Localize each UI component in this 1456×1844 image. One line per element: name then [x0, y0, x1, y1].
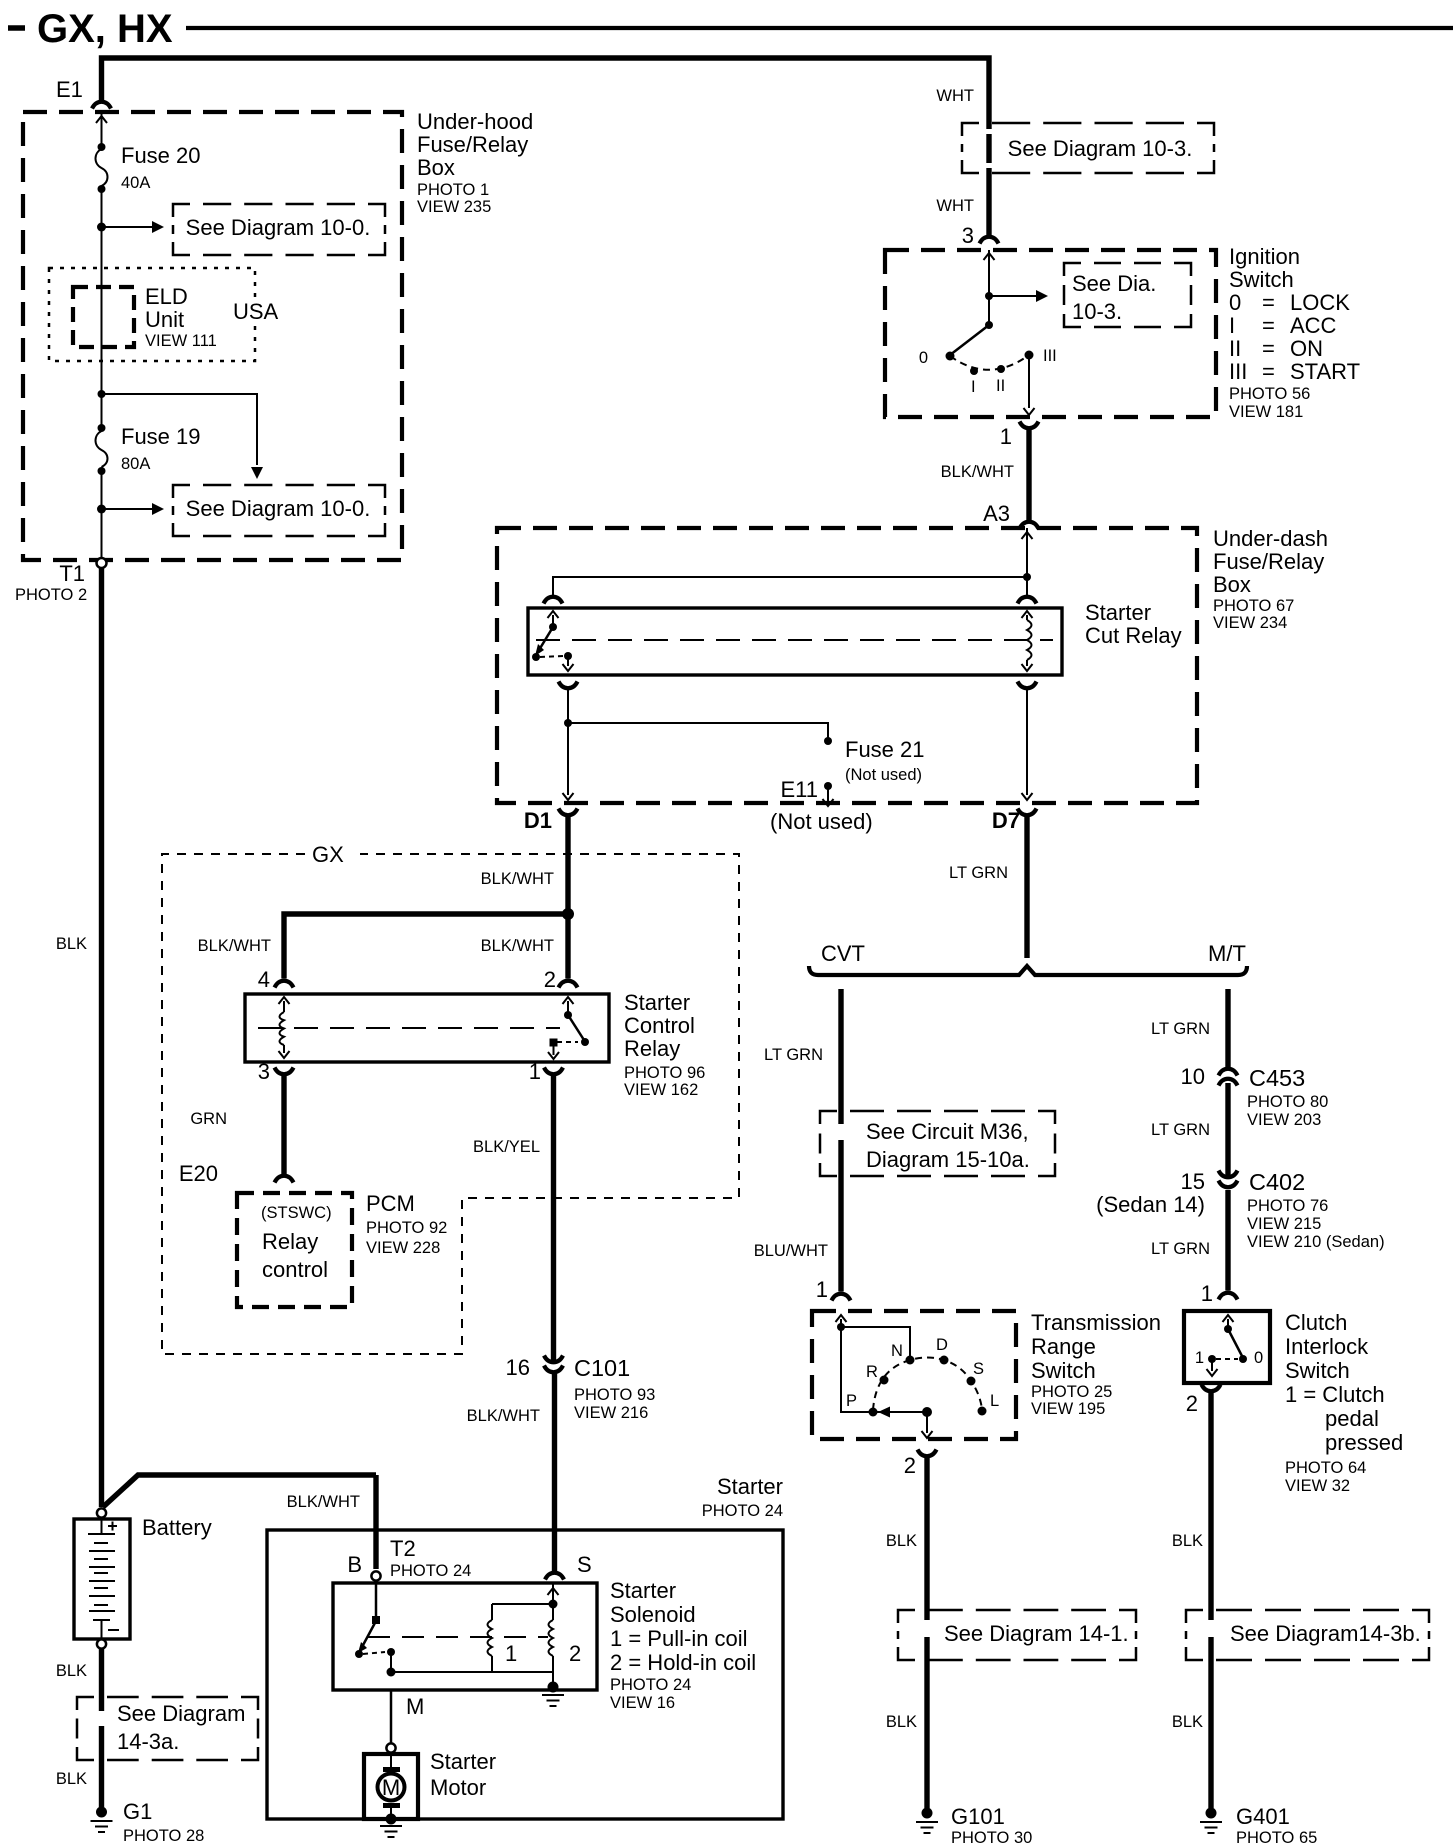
solenoid hold-in coil 2: [548, 1583, 582, 1687]
ignition positions arc 0-I-II-III: [919, 347, 1057, 396]
svg-text:See Diagram: See Diagram: [117, 1701, 245, 1726]
node M terminal: [386, 1743, 395, 1752]
svg-text:Cut Relay: Cut Relay: [1085, 623, 1182, 648]
svg-text:Fuse/Relay: Fuse/Relay: [1213, 549, 1324, 574]
node: battery positive terminal: [97, 1508, 106, 1517]
svg-text:USA: USA: [233, 299, 279, 324]
svg-text:PHOTO 1: PHOTO 1: [417, 181, 489, 199]
node S terminal: [545, 1552, 592, 1580]
svg-text:1: 1: [1000, 424, 1012, 449]
svg-text:Switch: Switch: [1031, 1358, 1096, 1383]
svg-text:Transmission: Transmission: [1031, 1310, 1161, 1335]
svg-text:Switch: Switch: [1285, 1358, 1350, 1383]
svg-text:1: 1: [529, 1059, 541, 1084]
svg-text:Fuse/Relay: Fuse/Relay: [417, 132, 528, 157]
svg-text:D7: D7: [992, 808, 1020, 833]
svg-text:1 = Pull-in coil: 1 = Pull-in coil: [610, 1626, 748, 1651]
node: branch to See Diagram 10-0 (lower) arrow: [97, 503, 164, 515]
svg-text:VIEW 215: VIEW 215: [1247, 1215, 1321, 1233]
svg-text:2: 2: [904, 1453, 916, 1478]
svg-text:4: 4: [258, 967, 270, 992]
svg-text:Fuse 20: Fuse 20: [121, 143, 201, 168]
svg-text:PHOTO 80: PHOTO 80: [1247, 1093, 1328, 1111]
wire: BLK/WHT ignition to A3: [941, 430, 1029, 520]
svg-text:PHOTO 25: PHOTO 25: [1031, 1383, 1112, 1401]
svg-text:M: M: [382, 1775, 400, 1800]
CVT / M/T split brace: [809, 941, 1247, 975]
svg-text:PHOTO 24: PHOTO 24: [610, 1676, 691, 1694]
svg-text:PHOTO 30: PHOTO 30: [951, 1829, 1032, 1844]
node D7: [992, 808, 1037, 833]
svg-text:2: 2: [569, 1641, 581, 1666]
svg-text:See Diagram 14-1.: See Diagram 14-1.: [944, 1621, 1129, 1646]
battery: [74, 1515, 212, 1639]
wire: C453 to C402 (LT GRN): [1151, 1083, 1228, 1177]
svg-text:Motor: Motor: [430, 1775, 486, 1800]
node A3: [983, 501, 1038, 529]
svg-text:E1: E1: [56, 77, 83, 102]
solenoid contact switch: [355, 1580, 395, 1672]
wire: clutch switch pin 2 to G401 (BLK): [1172, 1392, 1211, 1808]
svg-text:BLK/WHT: BLK/WHT: [481, 870, 554, 888]
node: relay contact pin (top left): [544, 597, 563, 604]
svg-text:LT GRN: LT GRN: [1151, 1121, 1210, 1139]
svg-text:3: 3: [962, 223, 974, 248]
svg-text:VIEW 203: VIEW 203: [1247, 1111, 1321, 1129]
svg-text:D: D: [936, 1336, 948, 1354]
wire: fuse 20 to T1 vertical: [101, 189, 103, 428]
node: branch to arrow into See Diagram 10-0 (lower): [98, 390, 264, 479]
wire: junction to pin 4 (BLK/WHT): [198, 914, 568, 979]
node E20: [179, 1161, 294, 1186]
svg-text:III: III: [1229, 359, 1247, 384]
wire: stub to relay coil: [1026, 577, 1028, 595]
ground: starter motor ground: [380, 1814, 402, 1838]
svg-text:GX, HX: GX, HX: [37, 7, 173, 51]
See Circuit M36 box: [820, 1111, 1055, 1176]
starter motor: [364, 1749, 496, 1819]
svg-text:BLK: BLK: [1172, 1532, 1203, 1550]
ignition rotary switch wiper: [946, 321, 994, 361]
svg-text:VIEW 16: VIEW 16: [610, 1694, 675, 1712]
svg-text:Box: Box: [417, 155, 455, 180]
node: relay pin 2: [544, 967, 578, 992]
node: ignition pin 1: [1000, 422, 1039, 450]
svg-text:BLK: BLK: [886, 1532, 917, 1550]
svg-text:Starter: Starter: [624, 990, 690, 1015]
svg-text:CVT: CVT: [821, 941, 865, 966]
ignition switch box: [885, 244, 1360, 421]
svg-text:LT GRN: LT GRN: [949, 864, 1008, 882]
svg-text:pedal: pedal: [1325, 1406, 1379, 1431]
svg-text:START: START: [1290, 359, 1360, 384]
svg-text:ACC: ACC: [1290, 313, 1337, 338]
svg-text:1: 1: [1201, 1281, 1213, 1306]
svg-text:PHOTO 92: PHOTO 92: [366, 1219, 447, 1237]
svg-text:G401: G401: [1236, 1804, 1290, 1829]
svg-text:See Diagram 10-3.: See Diagram 10-3.: [1008, 136, 1193, 161]
svg-text:VIEW 234: VIEW 234: [1213, 614, 1287, 632]
wire: CVT branch (LT GRN / BLU/WHT): [754, 989, 841, 1292]
svg-text:I: I: [971, 378, 976, 396]
wire: M output: [391, 1690, 424, 1743]
svg-text:D1: D1: [524, 808, 552, 833]
svg-text:E20: E20: [179, 1161, 218, 1186]
under-dash fuse/relay box: [497, 526, 1328, 803]
svg-text:Box: Box: [1213, 572, 1251, 597]
svg-text:B: B: [347, 1552, 362, 1577]
ELD unit box: [73, 284, 217, 350]
wire: ignition common feed inside box: [984, 250, 995, 325]
ground: solenoid coil ground: [542, 1682, 564, 1707]
wire: pin 3 to E20 (GRN): [190, 1076, 284, 1174]
solenoid pull-in coil 1: [488, 1604, 554, 1672]
svg-text:Starter: Starter: [610, 1578, 676, 1603]
wire: T1 to battery (BLK): [56, 568, 102, 1507]
svg-text:pressed: pressed: [1325, 1430, 1403, 1455]
svg-text:Under-dash: Under-dash: [1213, 526, 1328, 551]
wire: battery positive to starter B (BLK/WHT): [103, 1475, 376, 1511]
svg-text:S: S: [577, 1552, 592, 1577]
node E1 connector: [56, 77, 111, 109]
starter cut relay centerline: [536, 639, 1053, 641]
wire: D1 to starter control relay junction (BLK/WHT): [481, 817, 568, 914]
svg-text:II: II: [996, 377, 1005, 395]
wire: M/T branch upper (LT GRN): [1151, 989, 1228, 1068]
starter box: [267, 1474, 783, 1819]
node B terminal (T2): [347, 1536, 471, 1581]
svg-text:Starter: Starter: [717, 1474, 783, 1499]
svg-text:=: =: [1262, 313, 1275, 338]
svg-text:(Not used): (Not used): [845, 766, 922, 784]
node: relay coil output pin (bottom right): [1018, 682, 1037, 689]
svg-text:N: N: [891, 1342, 903, 1360]
svg-text:LT GRN: LT GRN: [764, 1046, 823, 1064]
node: transmission range switch pin 1: [816, 1277, 851, 1302]
wire: WHT segment below See Diagram 10-3 box: [986, 134, 991, 163]
node: relay pin 1: [529, 1059, 563, 1084]
svg-text:LOCK: LOCK: [1290, 290, 1350, 315]
svg-text:M/T: M/T: [1208, 941, 1246, 966]
svg-text:PHOTO 76: PHOTO 76: [1247, 1197, 1328, 1215]
svg-text:LT GRN: LT GRN: [1151, 1240, 1210, 1258]
svg-text:BLK/WHT: BLK/WHT: [941, 463, 1014, 481]
svg-text:80A: 80A: [121, 455, 150, 473]
wire: C402 to clutch interlock switch (LT GRN): [1151, 1190, 1228, 1291]
svg-text:BLK: BLK: [56, 1770, 87, 1788]
starter cut relay switch: [532, 611, 574, 671]
wire: III contact down to pin 1: [1024, 355, 1035, 415]
USA region (dotted): [49, 268, 284, 361]
svg-text:1: 1: [816, 1277, 828, 1302]
wire: C101 to starter solenoid S (BLK/WHT): [467, 1372, 555, 1571]
node: ignition switch pin 3: [962, 223, 999, 248]
svg-text:3: 3: [258, 1059, 270, 1084]
svg-text:LT GRN: LT GRN: [1151, 1020, 1210, 1038]
ground G1: [91, 1799, 205, 1844]
wire: pin 1 to C101 (BLK/YEL): [473, 1076, 553, 1362]
svg-text:BLK: BLK: [56, 935, 87, 953]
svg-text:BLK/YEL: BLK/YEL: [473, 1138, 540, 1156]
node: branch to See Dia. 10-3: [985, 290, 1048, 302]
PCM box (STSWC relay control): [237, 1191, 447, 1307]
svg-text:=: =: [1262, 290, 1275, 315]
svg-text:C101: C101: [574, 1355, 630, 1381]
svg-text:C402: C402: [1249, 1169, 1305, 1195]
svg-text:BLK/WHT: BLK/WHT: [481, 937, 554, 955]
wire: relay output to D1: [563, 690, 574, 800]
svg-text:III: III: [1043, 347, 1057, 365]
svg-text:Ignition: Ignition: [1229, 244, 1300, 269]
svg-text:Control: Control: [624, 1013, 695, 1038]
svg-text:40A: 40A: [121, 174, 150, 192]
node: relay coil pin (top right): [1018, 597, 1037, 604]
svg-text:BLK/WHT: BLK/WHT: [467, 1407, 540, 1425]
starter cut relay box: [528, 600, 1182, 675]
svg-text:(STSWC): (STSWC): [261, 1204, 332, 1222]
svg-text:PHOTO 56: PHOTO 56: [1229, 385, 1310, 403]
svg-text:GX: GX: [312, 842, 344, 867]
svg-text:L: L: [990, 1392, 999, 1410]
wire: A3 feed inside under-dash box: [1022, 528, 1033, 577]
svg-text:PHOTO 67: PHOTO 67: [1213, 597, 1294, 615]
node: junction D1 wire to relay pins 2 and 4: [562, 908, 574, 920]
node D1: [524, 808, 578, 833]
starter cut relay coil: [1022, 611, 1033, 671]
connector C402 pin 15: [1096, 1169, 1384, 1251]
svg-text:Diagram 15-10a.: Diagram 15-10a.: [866, 1147, 1030, 1172]
svg-text:Relay: Relay: [624, 1036, 680, 1061]
See Diagram 14-1 box: [898, 1610, 1136, 1660]
fuse F21 (not used): [824, 737, 925, 784]
wire: battery negative to G1 (BLK): [56, 1649, 102, 1807]
svg-text:(Not used): (Not used): [770, 809, 873, 834]
svg-text:VIEW 162: VIEW 162: [624, 1081, 698, 1099]
svg-text:=: =: [1262, 359, 1275, 384]
svg-text:0: 0: [1254, 1349, 1263, 1367]
svg-text:=: =: [1262, 336, 1275, 361]
svg-text:Solenoid: Solenoid: [610, 1602, 696, 1627]
node: branch to See Diagram 10-0 (upper): [97, 221, 164, 233]
fuse F19 (Fuse 19 80A): [96, 424, 201, 475]
svg-text:(Sedan 14): (Sedan 14): [1096, 1192, 1205, 1217]
See Dia. 10-3 box (inside ignition): [1064, 263, 1191, 327]
svg-text:T1: T1: [59, 561, 85, 586]
node: relay pin 4: [258, 967, 294, 992]
node: solenoid M junction: [387, 1668, 396, 1677]
wire: branch to Fuse 21: [568, 723, 828, 739]
connector C453 pin 10: [1181, 1064, 1329, 1129]
wire: TRS pin 2 to G101 (BLK): [886, 1458, 927, 1808]
svg-text:2 = Hold-in coil: 2 = Hold-in coil: [610, 1650, 756, 1675]
svg-text:VIEW 216: VIEW 216: [574, 1404, 648, 1422]
svg-text:ELD: ELD: [145, 284, 188, 309]
svg-text:1: 1: [1195, 1349, 1204, 1367]
svg-text:VIEW 195: VIEW 195: [1031, 1400, 1105, 1418]
ground G401: [1200, 1804, 1317, 1844]
svg-text:G1: G1: [123, 1799, 152, 1824]
See Diagram 10-0 box (upper): [173, 204, 385, 255]
svg-text:10: 10: [1181, 1064, 1205, 1089]
svg-text:Range: Range: [1031, 1334, 1096, 1359]
See Diagram 14-3b box: [1186, 1610, 1429, 1660]
svg-text:See Dia.: See Dia.: [1072, 271, 1156, 296]
svg-text:PHOTO 28: PHOTO 28: [123, 1827, 204, 1844]
svg-text:BLK: BLK: [886, 1713, 917, 1731]
svg-text:VIEW 181: VIEW 181: [1229, 403, 1303, 421]
svg-text:BLU/WHT: BLU/WHT: [754, 1242, 828, 1260]
node: junction to Fuse 21: [564, 719, 572, 727]
svg-text:PHOTO 24: PHOTO 24: [390, 1562, 471, 1580]
svg-text:control: control: [262, 1257, 328, 1282]
svg-text:PHOTO 64: PHOTO 64: [1285, 1459, 1366, 1477]
svg-text:GRN: GRN: [190, 1110, 227, 1128]
svg-text:2: 2: [1186, 1391, 1198, 1416]
svg-text:15: 15: [1181, 1169, 1205, 1194]
starter control relay centerline: [258, 1027, 560, 1029]
node: relay pin 3: [258, 1059, 294, 1084]
svg-text:0: 0: [919, 349, 928, 367]
svg-text:II: II: [1229, 336, 1241, 361]
svg-text:ON: ON: [1290, 336, 1323, 361]
svg-text:Starter: Starter: [430, 1749, 496, 1774]
starter solenoid box: [333, 1578, 756, 1712]
svg-text:Switch: Switch: [1229, 267, 1294, 292]
svg-text:BLK: BLK: [56, 1662, 87, 1680]
ground G101: [916, 1804, 1032, 1844]
See Diagram 10-3 box: [962, 123, 1214, 173]
svg-text:VIEW 111: VIEW 111: [145, 332, 217, 350]
svg-text:10-3.: 10-3.: [1072, 299, 1122, 324]
node: relay output pin (bottom left): [559, 682, 578, 689]
svg-text:C453: C453: [1249, 1065, 1305, 1091]
svg-text:14-3a.: 14-3a.: [117, 1729, 179, 1754]
title GX, HX: [8, 7, 1453, 51]
wire: junction to pin 2 (BLK/WHT): [481, 914, 568, 979]
svg-text:A3: A3: [983, 501, 1010, 526]
svg-text:PHOTO 24: PHOTO 24: [702, 1502, 783, 1520]
svg-text:PHOTO 96: PHOTO 96: [624, 1064, 705, 1082]
transmission range switch box: [812, 1310, 1161, 1439]
svg-text:E11: E11: [780, 777, 818, 802]
wire: E1 feed inside box down to Fuse 20: [96, 112, 107, 147]
svg-text:See Diagram 10-0.: See Diagram 10-0.: [186, 496, 371, 521]
svg-text:Fuse 19: Fuse 19: [121, 424, 201, 449]
solenoid centerline: [368, 1636, 548, 1638]
svg-text:Battery: Battery: [142, 1515, 212, 1540]
svg-text:Unit: Unit: [145, 307, 184, 332]
node: clutch interlock switch pin 2: [1186, 1385, 1221, 1417]
wire: coil return bus: [391, 1671, 553, 1673]
svg-text:R: R: [866, 1363, 878, 1381]
See Diagram 14-3a box: [77, 1697, 258, 1760]
wire: coil output to D7: [1022, 690, 1033, 800]
svg-text:See Diagram14-3b.: See Diagram14-3b.: [1230, 1621, 1421, 1646]
starter control relay box: [245, 990, 705, 1099]
node: junction to starter cut relay coil and contact: [1023, 573, 1031, 581]
svg-text:Clutch: Clutch: [1285, 1310, 1347, 1335]
node: battery negative terminal: [97, 1639, 106, 1648]
clutch interlock switch box: [1184, 1310, 1403, 1495]
starter control relay switch: [548, 997, 589, 1059]
clutch interlock switch contacts: [1195, 1315, 1263, 1376]
svg-text:T2: T2: [390, 1536, 416, 1561]
svg-text:VIEW 235: VIEW 235: [417, 198, 491, 216]
svg-text:See Circuit M36,: See Circuit M36,: [866, 1119, 1029, 1144]
wire: main feed from E1 to ignition switch (top bus): [102, 58, 990, 129]
svg-text:I: I: [1229, 313, 1235, 338]
svg-text:PCM: PCM: [366, 1191, 415, 1216]
svg-text:M: M: [406, 1694, 424, 1719]
svg-text:0: 0: [1229, 290, 1241, 315]
connector C101 pin 16: [506, 1355, 656, 1422]
svg-text:VIEW 228: VIEW 228: [366, 1239, 440, 1257]
svg-text:WHT: WHT: [936, 197, 974, 215]
svg-text:BLK/WHT: BLK/WHT: [287, 1493, 360, 1511]
wire: feed across to relay contact: [553, 577, 1027, 595]
starter control relay coil: [279, 997, 290, 1058]
under-hood fuse/relay box: [23, 109, 533, 560]
wire: BLK/WHT down to B terminal: [373, 1475, 378, 1569]
svg-text:16: 16: [506, 1355, 530, 1380]
svg-text:PHOTO 65: PHOTO 65: [1236, 1829, 1317, 1844]
node: transmission range switch pin 2: [904, 1450, 937, 1479]
svg-text:PHOTO 93: PHOTO 93: [574, 1386, 655, 1404]
svg-text:G101: G101: [951, 1804, 1005, 1829]
svg-text:VIEW 32: VIEW 32: [1285, 1477, 1350, 1495]
svg-text:2: 2: [544, 967, 556, 992]
svg-text:WHT: WHT: [936, 87, 974, 105]
svg-text:Relay: Relay: [262, 1229, 318, 1254]
svg-text:Fuse 21: Fuse 21: [845, 737, 925, 762]
svg-text:P: P: [846, 1392, 857, 1410]
svg-text:S: S: [973, 1360, 984, 1378]
svg-text:VIEW 210 (Sedan): VIEW 210 (Sedan): [1247, 1233, 1385, 1251]
svg-text:See Diagram 10-0.: See Diagram 10-0.: [186, 215, 371, 240]
See Diagram 10-0 box (lower): [173, 485, 385, 536]
svg-text:1 = Clutch: 1 = Clutch: [1285, 1382, 1385, 1407]
wire: D7 down to CVT/MT split (LT GRN): [949, 817, 1027, 958]
svg-text:PHOTO 2: PHOTO 2: [15, 586, 87, 604]
fuse F20 (Fuse 20 40A): [96, 143, 201, 193]
svg-text:BLK: BLK: [1172, 1713, 1203, 1731]
node: clutch interlock switch pin 1: [1201, 1281, 1238, 1306]
node E11 (not used): [770, 777, 873, 834]
svg-text:Starter: Starter: [1085, 600, 1151, 625]
node T1: [15, 558, 107, 604]
svg-text:BLK/WHT: BLK/WHT: [198, 937, 271, 955]
GX region boundary: [162, 842, 739, 1354]
svg-text:Under-hood: Under-hood: [417, 109, 533, 134]
svg-text:1: 1: [505, 1641, 517, 1666]
svg-text:Interlock: Interlock: [1285, 1334, 1369, 1359]
transmission range switch contacts: [836, 1315, 1000, 1438]
